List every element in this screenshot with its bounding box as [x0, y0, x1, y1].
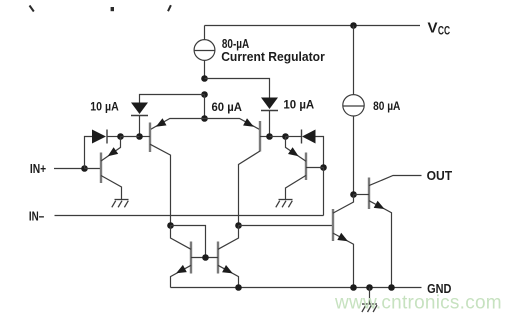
wire regulator top — [204, 26, 206, 40]
wire Q8 collector to OUT — [369, 176, 422, 186]
node junction on VCC rail — [350, 22, 357, 29]
node Q7 emitter on rail — [350, 284, 357, 291]
node junction IN+ — [81, 165, 88, 172]
wire node B to Q7 base — [239, 225, 334, 227]
wire Q4 emitter — [286, 137, 307, 162]
wire Q2 collector down to node A — [150, 144, 171, 225]
transistor Q7 base bar — [332, 209, 334, 241]
node K1 — [117, 133, 124, 140]
wire Q3 base — [260, 136, 270, 138]
wire Q5 emitter to GND rail — [171, 265, 192, 287]
wire IN+ lead — [54, 168, 85, 170]
node below D2 — [266, 133, 273, 140]
node ground stub on rail — [366, 284, 373, 291]
arrow Q5 emitter (NPN away from base) — [176, 265, 187, 273]
wire Q3 emitter from node E — [205, 119, 261, 130]
arrow Q8 emitter (NPN away from base) — [374, 201, 385, 209]
wire ground stub — [369, 288, 371, 305]
node Q8 base junction — [350, 191, 357, 198]
arrow Q6 emitter (NPN away from base) — [222, 265, 233, 273]
wire D3 cathode to node K1 — [107, 136, 121, 138]
ground symbol (Q4 collector) — [276, 200, 293, 208]
node junction regulator output upper — [201, 75, 208, 82]
svg-text:www.cntronics.com: www.cntronics.com — [334, 293, 502, 314]
transistor Q6 base bar — [217, 242, 219, 274]
svg-text:10 µA: 10 µA — [90, 99, 119, 113]
wire Q3 collector down to node B — [239, 151, 261, 226]
svg-text:80 µA: 80 µA — [373, 99, 400, 113]
wire node A to mirror bases — [171, 226, 206, 258]
wire CS2 to Q8 base node — [353, 116, 355, 195]
wire IN- line — [55, 215, 324, 217]
wire Q1 collector to ground — [101, 176, 122, 200]
wire D2 to node below — [269, 111, 271, 137]
svg-text:IN–: IN– — [29, 208, 44, 223]
wire VCC drop to CS2 — [353, 26, 355, 95]
wire Q2 base — [140, 136, 151, 138]
wire Q4 collector to ground — [286, 175, 307, 199]
wire Q5 collector to node A — [171, 226, 192, 250]
svg-text:60 µA: 60 µA — [212, 100, 243, 114]
wire D1 to node K2 — [139, 116, 141, 137]
ground symbol (Q1 collector) — [112, 200, 129, 208]
wire Q7 collector to Q8 base node — [333, 195, 354, 214]
wire regulator bottom — [204, 60, 206, 78]
arrow Q7 emitter (NPN away from base) — [337, 233, 348, 241]
wire D4 anode to IN- riser — [316, 137, 324, 168]
wire to D2 top — [205, 79, 270, 98]
wire Q2 emitter from node E — [150, 119, 205, 130]
text artifact 2 — [111, 7, 114, 11]
node D4 cathode junction — [282, 133, 289, 140]
wire node D2 to node D4 — [270, 136, 286, 138]
wire mirror base line — [191, 257, 218, 259]
svg-text:V: V — [428, 19, 438, 36]
arrow Q4 emitter (PNP toward base) — [288, 147, 299, 156]
svg-text:IN+: IN+ — [30, 161, 47, 176]
node B (mirror output) — [235, 222, 242, 229]
diode D4 — [302, 130, 316, 144]
wire GND rail — [171, 287, 422, 289]
wire VCC top rail — [205, 25, 421, 27]
arrow Q1 emitter (PNP toward base) — [108, 147, 119, 156]
node junction regulator output lower — [201, 91, 208, 98]
current source CS2 80 uA — [343, 95, 364, 116]
wire Q6 collector to node B — [218, 226, 239, 250]
wire node to D4 cathode — [286, 136, 302, 138]
current source CS1 80-uA current regulator — [194, 40, 215, 61]
text artifact 1 — [30, 6, 34, 12]
node mirror bases — [202, 254, 209, 261]
svg-text:Current Regulator: Current Regulator — [221, 49, 325, 64]
transistor Q3 base bar — [259, 121, 261, 152]
wire to D1 top — [140, 95, 205, 103]
diode D2 — [261, 98, 278, 111]
svg-text:OUT: OUT — [427, 168, 453, 183]
wire IN- riser lower — [323, 168, 325, 216]
node K2 below D1 — [136, 133, 143, 140]
text artifact 3 — [168, 5, 171, 11]
wire IN+ junction up to D3 anode — [85, 137, 93, 169]
diode D1 — [131, 103, 148, 116]
transistor Q8 base bar — [368, 178, 370, 210]
wire Q1 emitter to K1 — [101, 137, 121, 162]
wire IN+ junction to Q1 base — [85, 168, 102, 170]
transistor Q2 base bar — [149, 123, 151, 153]
wire Q6 emitter to GND rail — [218, 265, 239, 287]
diode D3 — [92, 130, 107, 144]
svg-text:CC: CC — [438, 26, 450, 38]
wire Q7 emitter to GND rail — [333, 233, 354, 287]
transistor Q1 base bar — [100, 153, 102, 184]
node Q4 base junction — [320, 164, 327, 171]
node Q6 emitter on rail — [235, 284, 242, 291]
arrow Q3 emitter (PNP toward base) — [243, 118, 254, 126]
node E common emitter junction — [201, 115, 208, 122]
node Q8 emitter on rail — [388, 284, 395, 291]
wire Q8 emitter to GND rail — [369, 201, 392, 288]
wire Q4 base — [306, 167, 324, 169]
arrow Q2 emitter (PNP toward base) — [156, 118, 167, 127]
wire Q8 base — [354, 194, 370, 196]
ground symbol (GND rail) — [362, 304, 377, 312]
svg-text:10 µA: 10 µA — [283, 98, 314, 112]
transistor Q4 base bar — [305, 153, 307, 181]
transistor Q5 base bar — [190, 242, 192, 274]
wire K1 to K2 — [121, 136, 140, 138]
node A (mirror input) — [167, 222, 174, 229]
wire tail down to node E — [204, 95, 206, 119]
